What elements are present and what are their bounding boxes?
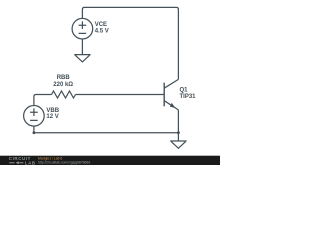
svg-text:12 V: 12 V [46,114,58,120]
emitter arrowhead [170,103,175,108]
svg-text:http://circuitlab.com/c/gsjg68: http://circuitlab.com/c/gsjg6878666 [38,161,90,165]
svg-text:RBB: RBB [57,75,71,81]
svg-text:VCE: VCE [95,22,107,28]
svg-text:220 kΩ: 220 kΩ [53,82,73,88]
svg-text:VBB: VBB [46,108,59,114]
wire VCE minus to ground [81,39,83,55]
transistor Q1 base bar [163,83,165,107]
wire bottom rail [34,132,179,134]
ground (under emitter) [170,141,186,148]
transistor Q1 emitter diagonal [164,101,178,110]
transistor Q1 collector diagonal [164,79,178,88]
wire VBB plus to resistor RBB left lead [34,95,52,106]
svg-text:LAB: LAB [25,160,36,165]
voltage source VBB [24,106,45,127]
wire RBB right lead to base [76,94,164,96]
wire emitter to ground [177,110,179,141]
ground (under VCE) [74,55,90,62]
svg-text:Q1: Q1 [180,88,189,94]
voltage source VCE [72,18,93,39]
junction dot (VBB corner) [33,131,36,134]
wire VBB minus to bottom rail [33,126,35,133]
resistor RBB [52,91,76,98]
junction dot (emitter/rail) [177,131,180,134]
footer CircuitLab logo [9,156,36,165]
wire top rail: VCE top to collector [82,7,178,79]
footer bar [0,156,220,165]
svg-text:TIP31: TIP31 [180,94,197,100]
footer text [38,157,90,165]
svg-text:4.5 V: 4.5 V [95,29,109,35]
